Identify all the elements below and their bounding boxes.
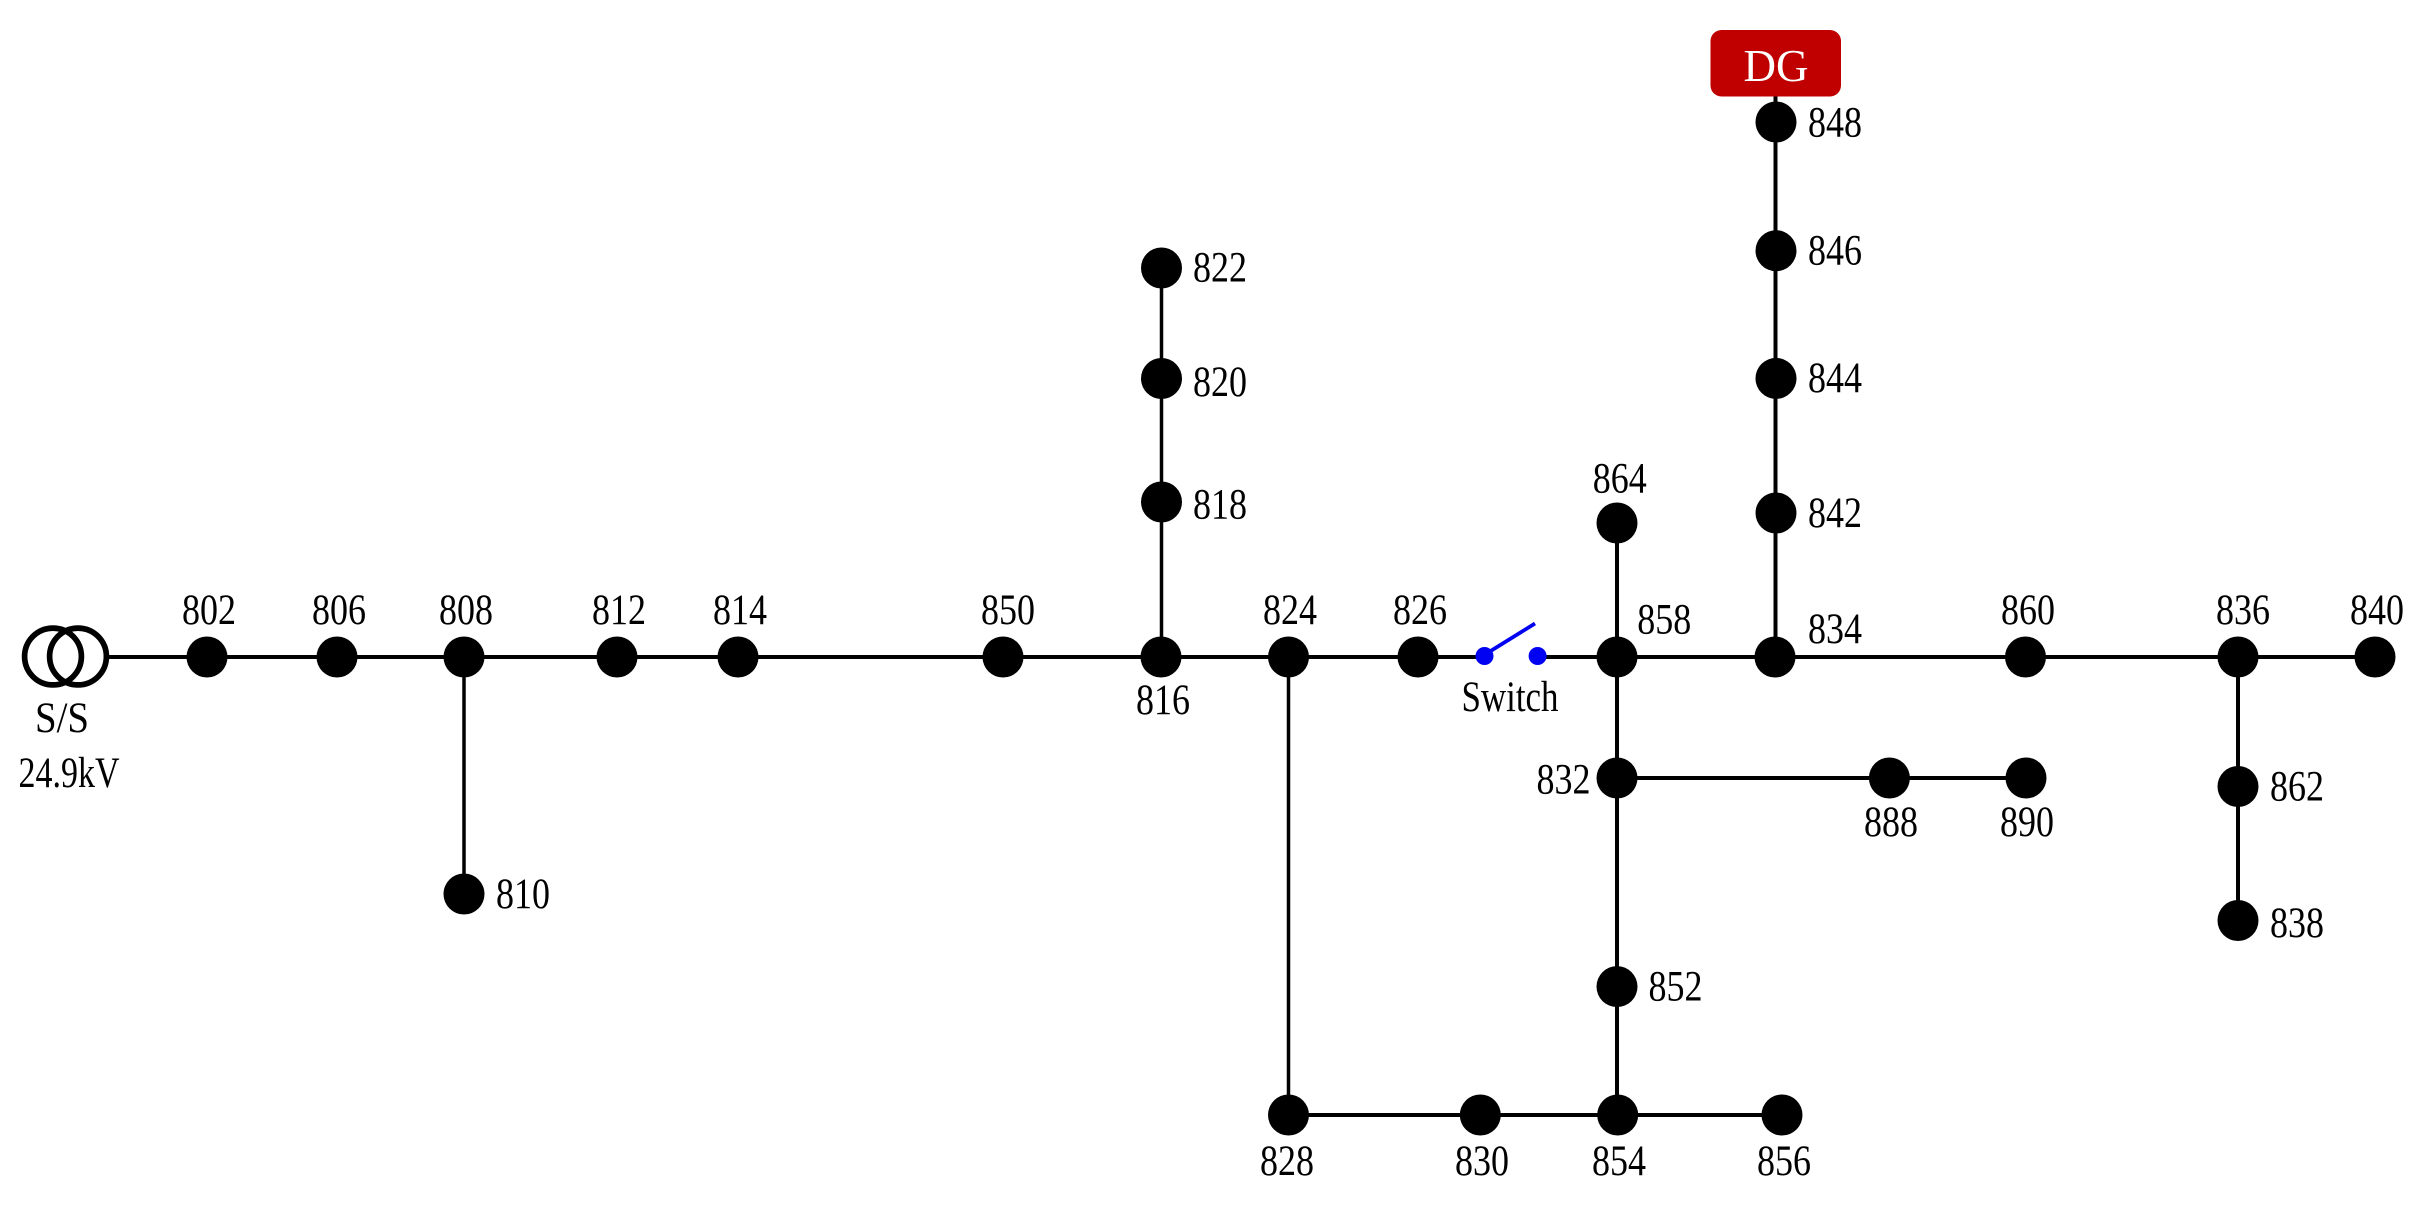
node 832 <box>1597 758 1638 799</box>
svg-text:816: 816 <box>1136 677 1190 724</box>
wire main feeder right segment switch to 840 <box>1538 655 2375 659</box>
node 842 <box>1756 493 1797 534</box>
svg-text:S/S: S/S <box>35 695 89 742</box>
node 848 <box>1756 102 1797 143</box>
switch blade <box>1489 624 1535 653</box>
node 826 <box>1398 637 1439 678</box>
svg-text:844: 844 <box>1808 355 1862 402</box>
svg-text:830: 830 <box>1455 1138 1509 1185</box>
svg-text:858: 858 <box>1637 597 1691 644</box>
wire 832 to 890 lateral <box>1617 776 2026 780</box>
wire 864-858-832-852-854 vertical <box>1615 523 1619 1115</box>
node 834 <box>1755 637 1796 678</box>
svg-text:888: 888 <box>1864 799 1918 846</box>
svg-text:860: 860 <box>2001 587 2055 634</box>
svg-text:852: 852 <box>1649 964 1703 1011</box>
node 844 <box>1756 358 1797 399</box>
node 820 <box>1141 358 1182 399</box>
node 856 <box>1762 1095 1803 1136</box>
node 812 <box>597 637 638 678</box>
svg-text:808: 808 <box>439 587 493 634</box>
svg-text:842: 842 <box>1808 490 1862 537</box>
node 816 <box>1141 637 1182 678</box>
node 858 <box>1597 637 1638 678</box>
svg-text:806: 806 <box>312 587 366 634</box>
substation transformer symbol S/S <box>25 628 82 685</box>
svg-text:812: 812 <box>592 587 646 634</box>
node 838 <box>2218 900 2259 941</box>
wire 808 to 810 <box>462 657 466 894</box>
node 828 <box>1268 1095 1309 1136</box>
svg-text:822: 822 <box>1193 245 1247 292</box>
node 846 <box>1756 230 1797 271</box>
node 840 <box>2355 637 2396 678</box>
svg-text:820: 820 <box>1193 359 1247 406</box>
svg-text:810: 810 <box>496 871 550 918</box>
node 824 <box>1268 637 1309 678</box>
wire 816 to 822 vertical <box>1160 268 1164 657</box>
DG source box <box>1711 30 1842 97</box>
svg-text:864: 864 <box>1593 456 1647 503</box>
svg-text:846: 846 <box>1808 228 1862 275</box>
wire main feeder left segment S/S to switch <box>107 655 1484 659</box>
node 836 <box>2218 637 2259 678</box>
node 854 <box>1597 1095 1638 1136</box>
node 850 <box>983 637 1024 678</box>
node 830 <box>1460 1095 1501 1136</box>
svg-text:814: 814 <box>713 587 767 634</box>
node 806 <box>317 637 358 678</box>
svg-text:836: 836 <box>2216 587 2270 634</box>
node 818 <box>1141 482 1182 523</box>
svg-text:826: 826 <box>1393 587 1447 634</box>
svg-text:24.9kV: 24.9kV <box>19 750 120 797</box>
node 888 <box>1869 758 1910 799</box>
svg-text:890: 890 <box>2000 799 2054 846</box>
wire DG-848-834 vertical <box>1774 96 1778 657</box>
svg-text:854: 854 <box>1592 1138 1646 1185</box>
node 860 <box>2005 637 2046 678</box>
svg-text:850: 850 <box>981 587 1035 634</box>
svg-text:824: 824 <box>1263 587 1317 634</box>
svg-text:802: 802 <box>182 587 236 634</box>
node 862 <box>2218 766 2259 807</box>
node 814 <box>718 637 759 678</box>
node 802 <box>187 637 228 678</box>
wire 824 to 828 vertical <box>1287 657 1291 1115</box>
node 808 <box>444 637 485 678</box>
node 822 <box>1141 248 1182 289</box>
svg-text:818: 818 <box>1193 482 1247 529</box>
switch pole dot left <box>1476 647 1494 665</box>
svg-text:834: 834 <box>1808 606 1862 653</box>
svg-text:862: 862 <box>2270 764 2324 811</box>
node 890 <box>2006 758 2047 799</box>
svg-text:848: 848 <box>1808 100 1862 147</box>
wire bottom lateral 828-856 <box>1289 1113 1783 1117</box>
node 810 <box>444 874 485 915</box>
svg-text:828: 828 <box>1260 1138 1314 1185</box>
node 852 <box>1597 966 1638 1007</box>
svg-text:DG: DG <box>1744 41 1809 91</box>
svg-text:840: 840 <box>2350 587 2404 634</box>
svg-text:Switch: Switch <box>1462 674 1559 721</box>
wire 836 to 838 vertical <box>2236 657 2240 921</box>
switch pole dot right <box>1529 647 1547 665</box>
svg-text:832: 832 <box>1537 757 1591 804</box>
svg-text:856: 856 <box>1757 1138 1811 1185</box>
svg-text:838: 838 <box>2270 900 2324 947</box>
node 864 <box>1597 503 1638 544</box>
